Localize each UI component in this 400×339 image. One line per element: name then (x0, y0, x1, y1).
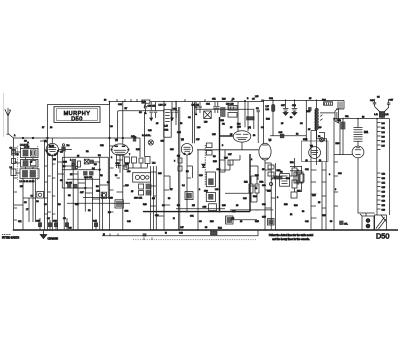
wire x44.5 (44, 141, 46, 230)
svg-text:D50: D50 (71, 117, 83, 123)
svg-text:MC: MC (20, 186, 24, 188)
svg-text:C32: C32 (305, 169, 310, 171)
svg-text:C5L: C5L (345, 116, 350, 118)
svg-text:R6: R6 (96, 186, 99, 188)
tube V1 (44, 141, 60, 157)
svg-text:L33: L33 (382, 137, 385, 139)
wire second bottom rail (102, 231, 258, 236)
svg-text:C18: C18 (75, 204, 80, 206)
svg-text:8: 8 (329, 174, 331, 176)
svg-text:3: 3 (111, 157, 113, 159)
svg-text:25: 25 (131, 191, 134, 193)
svg-text:C13: C13 (148, 130, 153, 132)
svg-text:R3: R3 (58, 204, 61, 206)
dial lamp (148, 140, 153, 145)
svg-text:C26: C26 (220, 120, 225, 122)
svg-text:M: M (173, 218, 175, 220)
svg-text:C13: C13 (382, 178, 385, 180)
svg-text:V4: V4 (248, 128, 252, 130)
svg-text:R7: R7 (170, 189, 173, 191)
svg-text:18: 18 (50, 127, 53, 129)
cluster IFT2 (192, 102, 238, 124)
scan edge artifact (3, 93, 5, 137)
svg-text:50: 50 (205, 227, 208, 229)
svg-text:R20: R20 (294, 205, 299, 207)
svg-text:50: 50 (168, 198, 171, 200)
svg-text:R13: R13 (255, 175, 260, 177)
svg-text:C4: C4 (47, 218, 51, 220)
svg-text:L19: L19 (204, 122, 208, 124)
antenna A1 (5, 108, 14, 138)
svg-text:17: 17 (42, 127, 45, 129)
svg-text:B: B (247, 98, 249, 100)
svg-text:C2: C2 (188, 117, 191, 119)
svg-text:C25: C25 (177, 132, 182, 134)
svg-text:25: 25 (230, 127, 233, 129)
svg-text:C7: C7 (31, 196, 35, 198)
svg-text:L2: L2 (232, 98, 235, 100)
svg-text:C20: C20 (382, 210, 385, 212)
svg-text:C24: C24 (206, 104, 211, 106)
wire AVC rail y138 (14, 137, 141, 139)
svg-text:L2: L2 (10, 167, 13, 169)
svg-text:L30: L30 (382, 123, 385, 125)
cluster oscillator under V2 (109, 157, 151, 213)
svg-text:C49: C49 (179, 232, 184, 234)
svg-text:R19: R19 (284, 204, 289, 206)
svg-text:L35: L35 (382, 146, 385, 148)
svg-text:R22: R22 (290, 162, 295, 164)
svg-text:C30: C30 (262, 185, 267, 187)
electrolytic C38 (292, 100, 298, 115)
svg-text:R20: R20 (286, 178, 291, 180)
svg-text:C23: C23 (125, 211, 130, 213)
svg-text:C3: C3 (199, 221, 202, 223)
svg-text:C20 C21: C20 C21 (134, 198, 143, 200)
svg-text:5: 5 (222, 145, 224, 147)
component C48 (336, 120, 346, 145)
svg-text:R2: R2 (100, 175, 103, 177)
svg-text:D50: D50 (376, 231, 389, 240)
svg-text:C4: C4 (60, 152, 63, 154)
svg-text:L4 L6 L8: L4 L6 L8 (20, 145, 29, 147)
svg-text:M: M (103, 234, 105, 236)
junction dots top rail (109, 99, 378, 120)
svg-text:9: 9 (335, 189, 337, 191)
svg-text:C1: C1 (10, 147, 14, 149)
svg-text:2K: 2K (70, 174, 73, 176)
svg-text:C19: C19 (109, 198, 114, 200)
svg-text:V3: V3 (181, 140, 185, 142)
plug box bottom right (360, 213, 374, 230)
svg-text:R7: R7 (125, 108, 129, 110)
component C43 (270, 135, 306, 137)
svg-text:50: 50 (330, 221, 333, 223)
svg-text:6: 6 (277, 197, 279, 199)
sprinkled value labels (16, 127, 337, 230)
svg-text:R3 R5: R3 R5 (66, 182, 73, 184)
svg-text:and the heavy lines for the co: and the heavy lines for the console. (272, 238, 310, 241)
svg-text:50: 50 (253, 135, 256, 137)
pilot lamp near V6 (319, 138, 323, 142)
wire y209.9 (230, 209, 273, 211)
tube V3 (181, 140, 193, 155)
wire V1 top stub (51, 138, 53, 143)
svg-text:15: 15 (309, 98, 312, 100)
svg-text:2: 2 (199, 189, 201, 191)
svg-text:C8: C8 (36, 201, 40, 203)
svg-text:V5: V5 (269, 140, 273, 142)
label box MURPHY D50 (54, 107, 100, 123)
component C35 dark (268, 219, 275, 226)
svg-text:S.O.A P.L.: S.O.A P.L. (142, 134, 152, 137)
svg-text:C17: C17 (80, 192, 85, 194)
svg-text:L27: L27 (266, 106, 270, 108)
wire dotted bottom rail (133, 239, 257, 241)
cluster detector R11 R12 (224, 158, 264, 202)
svg-text:Follow the dotted lines for th: Follow the dotted lines for the table mo… (269, 234, 314, 237)
svg-text:C15: C15 (382, 187, 385, 189)
svg-text:C17: C17 (382, 196, 385, 198)
svg-text:C18: C18 (170, 149, 175, 151)
svg-text:50: 50 (290, 117, 293, 119)
svg-text:C12: C12 (100, 145, 105, 147)
svg-text:C5: C5 (63, 218, 67, 220)
svg-text:C51: C51 (212, 98, 217, 100)
svg-text:R10: R10 (213, 161, 218, 163)
svg-text:C16: C16 (382, 192, 385, 194)
svg-text:50: 50 (255, 188, 258, 190)
terminal ladder (377, 119, 385, 215)
component C33 dark (226, 216, 234, 224)
rail ticks (117, 99, 205, 102)
component C22 circle (96, 190, 107, 198)
hatched box C5L (338, 102, 342, 109)
tube V5 (259, 140, 272, 160)
ground chassis (40, 230, 58, 241)
svg-text:C8: C8 (24, 202, 27, 204)
tube V6 (306, 146, 322, 162)
cluster IFT1 trimmers (139, 100, 178, 137)
svg-text:C45: C45 (93, 221, 98, 223)
wire heavy horizontal (143, 211, 250, 213)
svg-text:S2: S2 (88, 210, 91, 212)
wire V2 stems (117, 155, 125, 173)
svg-text:R9: R9 (213, 156, 217, 158)
tube V4 (233, 128, 251, 142)
svg-text:L19: L19 (197, 127, 201, 129)
resistor stack above V7 (354, 119, 369, 146)
svg-text:CHASSIS: CHASSIS (48, 238, 59, 241)
cluster speaker top right (370, 97, 394, 119)
wire top rail main (110, 100, 345, 104)
heavy double vertical console (178, 107, 179, 230)
svg-text:L6: L6 (30, 162, 33, 164)
svg-text:R16: R16 (210, 221, 215, 223)
svg-text:14: 14 (296, 134, 299, 136)
svg-text:C12: C12 (164, 130, 169, 132)
wire left vertical x14 (13, 138, 15, 230)
resistor right of V1 (59, 144, 73, 152)
svg-text:C9: C9 (139, 112, 143, 114)
svg-text:25: 25 (156, 123, 159, 125)
svg-text:C14 C15: C14 C15 (84, 177, 93, 179)
svg-text:C34: C34 (312, 195, 317, 197)
ticks on second rail (110, 234, 152, 240)
svg-text:0.1: 0.1 (182, 185, 186, 187)
switch dashed lines (17, 146, 19, 180)
svg-text:L42: L42 (385, 114, 389, 116)
top rail small labels (42, 98, 365, 157)
shield box around V2 (117, 111, 163, 141)
svg-text:C16: C16 (116, 163, 121, 165)
svg-text:18: 18 (104, 99, 107, 101)
svg-text:C35: C35 (262, 217, 267, 219)
tube V2 (111, 140, 129, 155)
svg-text:R13: R13 (143, 204, 148, 206)
svg-text:C26: C26 (199, 175, 204, 177)
svg-text:25: 25 (281, 123, 284, 125)
svg-text:50: 50 (115, 175, 118, 177)
svg-text:C46: C46 (127, 221, 132, 223)
svg-text:C19: C19 (382, 205, 385, 207)
sprinkled value labels 2 (14, 117, 343, 229)
wire left boundary x47.5 (47, 104, 49, 230)
svg-text:R2: R2 (98, 155, 102, 157)
svg-text:C19: C19 (158, 173, 163, 175)
svg-text:C2: C2 (222, 124, 226, 126)
svg-text:C3: C3 (24, 141, 28, 143)
svg-text:L41: L41 (374, 114, 378, 116)
svg-text:C5: C5 (252, 98, 255, 100)
svg-text:25: 25 (318, 202, 321, 204)
svg-text:C12: C12 (382, 174, 385, 176)
wire verticals mid (109, 102, 111, 230)
svg-text:S2: S2 (68, 195, 71, 197)
svg-text:C2: C2 (16, 154, 19, 156)
svg-text:L28: L28 (266, 109, 270, 111)
svg-text:C37: C37 (281, 105, 286, 107)
cluster antenna coupling (10, 147, 17, 175)
left lower wires (23, 197, 36, 199)
wire speaker feed rail (334, 118, 390, 120)
electrolytic C37 (281, 100, 288, 115)
svg-text:C20: C20 (125, 185, 130, 187)
svg-text:R23: R23 (307, 111, 312, 113)
svg-text:C34: C34 (262, 204, 267, 206)
svg-text:C36: C36 (338, 173, 343, 175)
svg-text:L4 L5: L4 L5 (24, 147, 30, 149)
svg-text:2M: 2M (192, 205, 195, 207)
svg-text:C52: C52 (173, 109, 178, 111)
svg-text:L25: L25 (255, 96, 259, 98)
wire top rail left segment (48, 103, 110, 105)
component C42 on avc rail (47, 136, 136, 139)
svg-text:R6: R6 (94, 164, 98, 166)
svg-text:4: 4 (251, 159, 253, 161)
svg-text:C4: C4 (261, 127, 264, 129)
svg-text:7: 7 (129, 154, 131, 156)
svg-text:R4: R4 (67, 145, 71, 147)
svg-text:C50: C50 (237, 127, 242, 129)
svg-text:L24: L24 (237, 124, 241, 126)
svg-text:12: 12 (290, 214, 293, 216)
tube V7 (352, 146, 364, 158)
svg-text:L32: L32 (382, 132, 385, 134)
misc mid wires (195, 102, 197, 110)
component L24 dark bar (237, 108, 260, 128)
svg-text:C7L: C7L (344, 223, 349, 225)
svg-text:C27: C27 (228, 154, 233, 156)
svg-text:13: 13 (240, 221, 243, 223)
component C7L bottom (340, 221, 344, 225)
svg-text:R1: R1 (86, 151, 89, 153)
svg-text:6: 6 (174, 161, 176, 163)
svg-text:S4: S4 (377, 97, 380, 99)
svg-text:1M: 1M (53, 159, 56, 161)
svg-text:FITTED EARTH: FITTED EARTH (2, 237, 19, 240)
svg-text:C25: C25 (212, 134, 217, 136)
svg-text:C6: C6 (110, 126, 114, 128)
svg-text:A: A (14, 134, 16, 137)
caps on bottom rail (36, 218, 98, 230)
cluster under V3 detector column (177, 143, 221, 211)
svg-text:C46: C46 (370, 100, 375, 102)
cluster mixer mesh (62, 157, 108, 197)
svg-text:R26: R26 (222, 98, 227, 100)
svg-text:R28: R28 (266, 119, 271, 121)
svg-text:R30: R30 (336, 143, 341, 145)
wire heavy vertical (219, 117, 221, 212)
cluster left of V6 resistors (286, 158, 304, 198)
svg-text:C31: C31 (190, 216, 195, 218)
svg-text:1M: 1M (152, 198, 155, 200)
svg-text:L34: L34 (382, 141, 385, 143)
switch box bottom right (375, 215, 387, 230)
svg-text:C17: C17 (161, 141, 166, 143)
svg-text:C44: C44 (118, 104, 123, 106)
svg-text:L31: L31 (382, 128, 385, 130)
svg-text:C47: C47 (389, 100, 394, 102)
svg-text:R12: R12 (260, 182, 265, 184)
wire stubs (14, 146, 338, 220)
svg-text:C11: C11 (18, 221, 22, 223)
svg-text:25: 25 (236, 205, 239, 207)
svg-text:L14: L14 (152, 163, 156, 165)
svg-text:C47: C47 (180, 227, 185, 229)
svg-text:C5: C5 (60, 180, 63, 182)
svg-text:C18: C18 (382, 201, 385, 203)
wire sub rail y109 (196, 109, 254, 129)
svg-text:L25: L25 (196, 139, 200, 141)
svg-text:L1 C1 S1 C2 L3: L1 C1 S1 C2 L3 (20, 181, 36, 183)
svg-text:L18: L18 (127, 171, 131, 173)
svg-text:C3: C3 (256, 108, 260, 110)
svg-text:C6: C6 (300, 123, 303, 125)
box around V6 (302, 141, 329, 162)
svg-text:R15: R15 (255, 221, 260, 223)
svg-text:C10 C11: C10 C11 (148, 105, 157, 107)
wire V1 stem (51, 156, 53, 230)
svg-text:R10: R10 (222, 205, 227, 207)
svg-text:ECH: ECH (49, 146, 54, 148)
cluster coil bank (16, 147, 39, 183)
svg-text:C28: C28 (243, 198, 248, 200)
svg-text:R21: R21 (297, 191, 302, 193)
svg-text:50: 50 (302, 211, 305, 213)
cluster volume control (267, 165, 303, 193)
svg-text:L29: L29 (318, 127, 322, 129)
svg-text:C43: C43 (68, 228, 73, 230)
svg-text:L15: L15 (164, 126, 168, 128)
svg-text:M: M (165, 232, 167, 234)
svg-text:C39: C39 (53, 221, 58, 223)
svg-text:L22 L23: L22 L23 (226, 103, 234, 105)
fuse (272, 105, 275, 112)
wire bottom heavy chassis rail (14, 229, 398, 231)
svg-text:R8: R8 (186, 171, 189, 173)
svg-text:R11: R11 (244, 182, 249, 184)
svg-text:L26: L26 (215, 189, 219, 191)
junction dots bottom rail (13, 211, 335, 231)
svg-text:C30: C30 (203, 207, 208, 209)
svg-text:PEN: PEN (303, 139, 308, 141)
svg-text:L16 L17: L16 L17 (159, 105, 167, 107)
svg-text:C41: C41 (305, 221, 310, 223)
svg-text:C14: C14 (382, 183, 385, 185)
svg-text:50: 50 (180, 123, 183, 125)
svg-text:C9: C9 (44, 204, 47, 206)
svg-text:R31: R31 (364, 132, 369, 134)
svg-text:V2: V2 (115, 140, 119, 142)
cluster output stage (307, 100, 339, 162)
svg-text:C38: C38 (292, 105, 297, 107)
cluster C7 (31, 192, 44, 204)
